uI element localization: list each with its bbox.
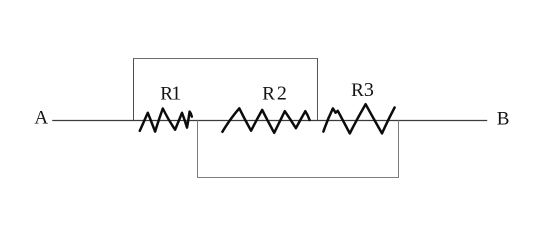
label R2 — [262, 83, 287, 105]
svg-text:R: R — [351, 80, 364, 101]
svg-text:3: 3 — [364, 79, 374, 101]
wire top branch horizontal — [133, 58, 318, 60]
resistor R3 — [323, 104, 394, 133]
label R3 — [351, 79, 374, 101]
wire top branch left vertical — [133, 58, 135, 121]
svg-text:A: A — [34, 108, 48, 129]
resistor R1 — [140, 109, 192, 132]
svg-text:R: R — [262, 84, 275, 105]
svg-text:2: 2 — [277, 83, 287, 105]
wire main horizontal A to B — [52, 120, 487, 122]
wire bottom branch horizontal — [197, 177, 399, 179]
svg-text:B: B — [497, 109, 510, 130]
wire top branch right vertical — [317, 58, 319, 121]
wire bottom branch right vertical — [398, 121, 400, 178]
wire bottom branch left vertical — [197, 121, 199, 178]
resistor R2 — [222, 108, 309, 133]
svg-text:1: 1 — [171, 83, 181, 105]
label R1 — [160, 83, 181, 105]
